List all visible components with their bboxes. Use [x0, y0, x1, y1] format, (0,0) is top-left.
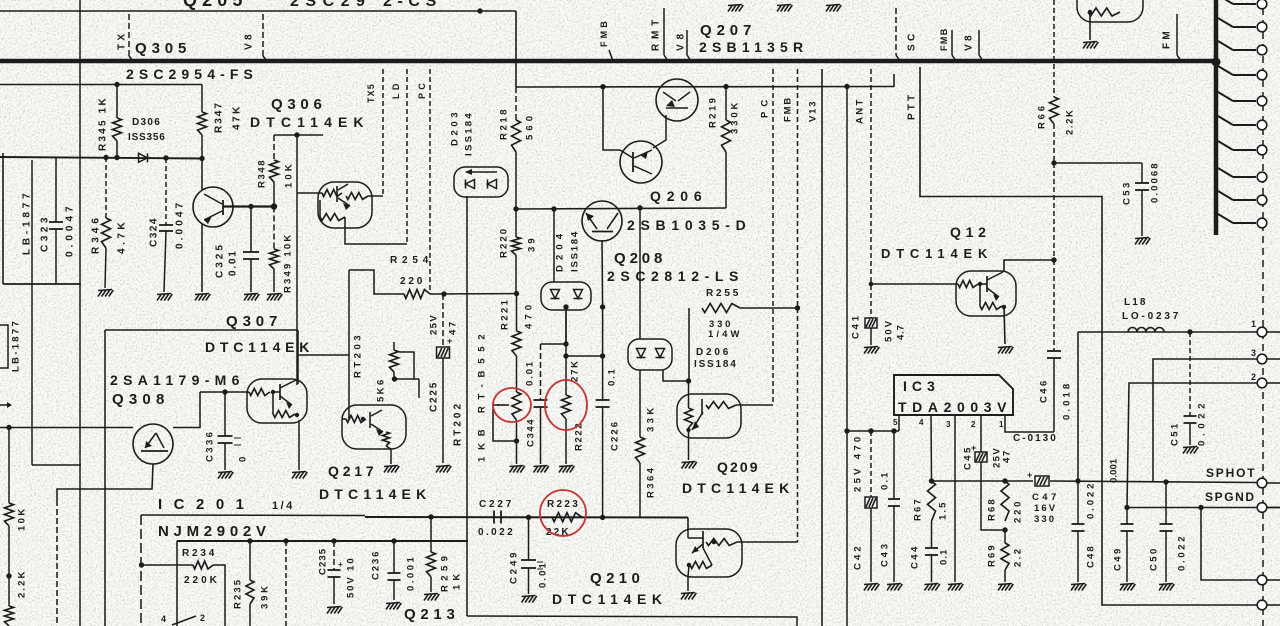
svg-text:4: 4 [161, 614, 166, 624]
svg-text:47: 47 [447, 319, 458, 335]
svg-text:2-CS: 2-CS [383, 0, 442, 10]
capacitor C225 [442, 294, 444, 347]
svg-text:0: 0 [237, 451, 248, 462]
svg-text:R364: R364 [645, 466, 656, 498]
ground R69 [998, 584, 1003, 591]
svg-text:4.7K: 4.7K [117, 219, 128, 254]
svg-text:2SC2812-LS: 2SC2812-LS [607, 268, 744, 284]
ground top 1 [728, 5, 733, 12]
svg-text:220: 220 [400, 276, 425, 287]
svg-text:Q210: Q210 [590, 570, 644, 587]
main supply bus [0, 59, 1216, 64]
wire top rail [0, 10, 516, 12]
wire C53 branch [1054, 162, 1142, 164]
svg-text:R255: R255 [706, 288, 741, 299]
svg-text:C43: C43 [879, 541, 890, 567]
ground C225 [436, 466, 441, 473]
svg-text:0.018: 0.018 [1061, 381, 1072, 420]
junction C48 top [1075, 478, 1080, 483]
svg-text:D206: D206 [696, 347, 731, 358]
ground R259 [424, 594, 429, 601]
wire LB-1877 left leg [2, 153, 4, 284]
wire left rail x80 [79, 0, 81, 626]
ground Q305 [195, 294, 200, 301]
svg-text:2SA1179-M6: 2SA1179-M6 [110, 372, 245, 388]
svg-text:0.01: 0.01 [228, 249, 239, 276]
junction ANT rail [844, 84, 849, 89]
ground C48 [1071, 584, 1076, 591]
junction C226 branch [563, 353, 568, 358]
svg-text:470: 470 [523, 301, 534, 329]
wire 5K6 out [395, 378, 420, 380]
svg-text:R221: R221 [499, 298, 510, 330]
svg-text:2: 2 [200, 613, 205, 623]
svg-text:DTC114EK: DTC114EK [319, 486, 431, 502]
svg-text:27K: 27K [569, 359, 580, 382]
svg-text:ISS184: ISS184 [694, 359, 738, 370]
svg-text:TDA2003V: TDA2003V [898, 399, 1012, 415]
capacitor C227 [493, 511, 495, 524]
junction R345 top [114, 82, 119, 87]
capacitor C324 [165, 158, 167, 225]
net tick FMB mid [609, 50, 613, 61]
svg-text:SPGND: SPGND [1205, 490, 1256, 504]
svg-text:R346: R346 [91, 214, 102, 254]
wire ic201 top border [141, 514, 365, 517]
wire Q305 collector [223, 205, 274, 207]
resistor R345 [116, 85, 118, 119]
svg-text:DTC114EK: DTC114EK [881, 246, 993, 261]
svg-text:C41: C41 [850, 313, 861, 339]
wire Q307 collector [297, 330, 299, 384]
resistor 5K6 [393, 342, 395, 350]
junction D204 bottom [563, 304, 568, 309]
svg-text:D306: D306 [132, 117, 161, 128]
svg-text:2SC29: 2SC29 [290, 0, 371, 10]
svg-text:C48: C48 [1085, 544, 1096, 568]
resistor R254 [404, 290, 430, 299]
resistor R221 [516, 294, 518, 331]
capacitor C44 [925, 547, 938, 549]
transistor Q12 [956, 271, 1016, 316]
svg-text:4: 4 [919, 418, 924, 427]
svg-text:R348: R348 [256, 159, 267, 188]
svg-text:LO-0237: LO-0237 [1122, 311, 1181, 322]
svg-text:0.022: 0.022 [1196, 399, 1207, 446]
transistor Q306 [318, 182, 372, 228]
svg-text:ISS356: ISS356 [128, 132, 166, 143]
ground R349 [267, 294, 272, 301]
junction SPGND right [1198, 505, 1203, 510]
ground C49 [1120, 584, 1125, 591]
diode D203 capsule [454, 167, 508, 197]
svg-text:25V: 25V [428, 314, 439, 335]
wire D204 bottom [565, 309, 567, 344]
connector bus bar [1214, 0, 1219, 235]
junction x286 [283, 538, 288, 543]
wire SPGND rail [1127, 507, 1280, 509]
wire PTT run [920, 67, 1258, 605]
wire bottom loop [467, 616, 797, 626]
svg-text:0.01: 0.01 [537, 561, 548, 588]
ground Q217 [384, 466, 389, 473]
svg-text:TX: TX [117, 31, 128, 50]
wire Q306 base rail [274, 134, 323, 136]
annotation red circle 2 [545, 380, 587, 430]
resistor R66 [1050, 97, 1059, 124]
transistor Q64 (clipped top) [1077, 0, 1143, 22]
wire Q12 collector [1004, 260, 1054, 272]
junction C236 top [391, 538, 396, 543]
ground Q307 [292, 472, 297, 479]
svg-text:FMB: FMB [599, 18, 609, 47]
svg-text:0.1: 0.1 [879, 470, 890, 490]
svg-text:0.1: 0.1 [938, 548, 949, 565]
wire Q307 emitter [298, 420, 300, 470]
svg-text:0.022: 0.022 [478, 527, 515, 538]
junction C225 top [441, 291, 446, 296]
net V13 [821, 69, 823, 626]
svg-text:330: 330 [1034, 514, 1056, 525]
capacitor C41 [865, 318, 877, 328]
ground C249 [522, 596, 527, 603]
svg-text:Q305: Q305 [135, 40, 191, 57]
wire IC3 pin5 [898, 415, 900, 431]
ground C53 [1135, 238, 1140, 245]
svg-text:V8: V8 [964, 32, 975, 51]
svg-text:2SB1135R: 2SB1135R [699, 39, 808, 55]
junction C47 left [1002, 478, 1007, 483]
ground C235 [327, 607, 332, 614]
wire Q206 base elbow [603, 87, 620, 150]
wire Q306 emitter [345, 228, 407, 244]
wire left rail x32 [31, 160, 33, 465]
wire R360 ground leg [516, 441, 518, 464]
wire Q306 collector [368, 195, 383, 197]
junction Q305 node [271, 203, 277, 209]
svg-text:C249: C249 [508, 550, 519, 584]
wire R222 net [565, 307, 567, 344]
svg-text:50V: 50V [883, 319, 894, 342]
ground C43 [887, 584, 892, 591]
svg-text:1: 1 [999, 420, 1004, 429]
svg-text:0.001: 0.001 [405, 555, 416, 591]
capacitor C226 [602, 356, 604, 400]
wire Q209 collector [736, 404, 773, 406]
wire L18 left [1078, 331, 1128, 333]
ground C41 [864, 347, 869, 354]
wire R254 right [430, 293, 517, 295]
junction R235 top [247, 538, 252, 543]
svg-text:C50: C50 [1148, 546, 1159, 571]
svg-text:0.0068: 0.0068 [1149, 161, 1160, 203]
svg-text:C49: C49 [1112, 546, 1123, 571]
svg-text:C44: C44 [909, 544, 920, 569]
svg-text:Q217: Q217 [328, 463, 377, 479]
wire sphot left [932, 480, 1034, 482]
transistor Q307 [247, 379, 307, 423]
svg-text:Q207: Q207 [700, 22, 756, 39]
svg-text:C47: C47 [1032, 492, 1060, 503]
svg-text:V13: V13 [807, 100, 818, 122]
bus terminal junction [1212, 58, 1221, 67]
wire Q307 base [200, 391, 249, 393]
wire D204 top [553, 209, 555, 282]
junction Q12 collector [1051, 257, 1056, 262]
svg-text:D203: D203 [449, 109, 460, 146]
ground R360 [510, 466, 515, 473]
svg-text:DTC114EK: DTC114EK [682, 480, 794, 496]
capacitor C344 [541, 343, 567, 345]
svg-text:3: 3 [1251, 348, 1256, 358]
ground R346 [98, 290, 103, 297]
resistor R218 [515, 87, 517, 120]
transistor Q305 [193, 187, 233, 227]
resistor R235 [249, 541, 251, 580]
wire L18 feed [1077, 332, 1079, 481]
svg-text:C227: C227 [479, 499, 514, 510]
inductor L18 [1128, 331, 1258, 333]
ground Q210 [681, 593, 686, 600]
ground C336 [218, 472, 223, 479]
wire to C226 [566, 355, 603, 357]
svg-text:FM: FM [1162, 28, 1173, 49]
wire y208 rail [516, 208, 726, 209]
svg-text:4.7: 4.7 [895, 324, 906, 340]
svg-text:0.0047: 0.0047 [65, 202, 76, 257]
ground C44 [925, 584, 930, 591]
wire Q308 collector [173, 392, 200, 428]
svg-text:R67: R67 [912, 497, 923, 521]
svg-text:R66: R66 [1036, 103, 1047, 129]
svg-text:R218: R218 [498, 107, 509, 140]
svg-text:D204: D204 [554, 229, 565, 272]
net stub V8 right [978, 30, 980, 55]
annotation red circle 3 [540, 490, 586, 536]
wire C46 to pin1 [1005, 416, 1054, 432]
svg-text:FMB: FMB [782, 96, 793, 122]
transistor Q208 [582, 201, 622, 241]
capacitor C325 [250, 207, 252, 253]
svg-text:3: 3 [946, 420, 951, 429]
svg-text:C226: C226 [609, 420, 620, 451]
transistor Q209 [677, 394, 741, 438]
component LB-1877 box [0, 325, 8, 368]
net PC [772, 69, 774, 405]
svg-text:220K: 220K [184, 575, 220, 586]
svg-text:DTC114EK: DTC114EK [552, 591, 668, 607]
svg-text:R223: R223 [547, 499, 580, 510]
component IC201 border left [140, 515, 142, 626]
svg-text:C42: C42 [852, 543, 863, 570]
svg-text:1K: 1K [451, 570, 462, 590]
svg-text:FMB: FMB [939, 27, 949, 51]
wire Q217 emitter [390, 449, 392, 464]
capacitor C235 [333, 541, 335, 570]
ground top 3 [826, 5, 831, 12]
svg-text:5: 5 [893, 418, 898, 427]
wire D206 out [663, 370, 689, 381]
junction R345 bottom [114, 155, 119, 160]
wire Q210 emitter [687, 577, 689, 591]
svg-text:2SC2954-FS: 2SC2954-FS [126, 66, 258, 82]
wire Q12 base [871, 283, 958, 285]
connector pins lower [1257, 327, 1267, 337]
junction R218 bottom [513, 206, 518, 211]
junction C235 top [331, 538, 336, 543]
junction R219 top [723, 84, 728, 89]
svg-text:RT202: RT202 [453, 401, 464, 446]
junction C51 top [1187, 329, 1192, 334]
capacitor C336 [224, 392, 226, 436]
svg-text:2: 2 [971, 420, 976, 429]
capacitor C50 [1165, 482, 1167, 524]
wire top rail corner down [515, 11, 517, 87]
junction R255 FMB [795, 305, 800, 310]
net stub RMT [663, 8, 665, 55]
capacitor C46 [1053, 163, 1055, 260]
resistor R219 [725, 87, 727, 120]
svg-text:C344: C344 [525, 418, 536, 447]
resistor R222 [565, 344, 567, 395]
net LD [406, 69, 408, 244]
resistor R349 [273, 207, 275, 250]
diode D206 capsule [628, 339, 672, 370]
svg-text:5K6: 5K6 [375, 377, 386, 402]
ground top 2 [777, 5, 782, 12]
svg-text:LB-1877: LB-1877 [10, 319, 21, 372]
junction SPGND left [1124, 505, 1129, 510]
svg-text:2SB1035-D: 2SB1035-D [627, 217, 751, 233]
wire Q308 emitter [57, 464, 153, 500]
wire x603 to C226 [602, 307, 604, 356]
connector pin chain dash [1262, 8, 1264, 626]
capacitor C51 [1189, 332, 1191, 416]
svg-text:39: 39 [526, 235, 537, 252]
svg-text:Q213: Q213 [404, 606, 460, 623]
wire y86 rail [516, 86, 894, 89]
wire D206 feed [639, 208, 641, 339]
resistor R255 [688, 308, 690, 381]
net stub SC [895, 8, 897, 55]
svg-text:Q205: Q205 [183, 0, 247, 10]
net R66 [1053, 0, 1055, 97]
junction C226 bottom [600, 515, 605, 520]
net stub V8 q207 [686, 30, 688, 55]
resistor R234 [142, 564, 194, 566]
svg-text:+: + [338, 560, 343, 569]
wire Q208 collector [601, 240, 604, 307]
svg-text:330K: 330K [729, 100, 740, 134]
wire IC3 pin3 [954, 415, 956, 582]
wire Q210 base [687, 518, 689, 532]
svg-text:LD: LD [391, 80, 401, 99]
svg-text:R234: R234 [182, 548, 217, 559]
svg-text:RT203: RT203 [352, 332, 363, 378]
svg-text:NJM2902V: NJM2902V [158, 523, 271, 540]
svg-text:0.001: 0.001 [1108, 458, 1119, 483]
wire Q210 collector [742, 541, 798, 543]
svg-text:ISS184: ISS184 [569, 230, 580, 272]
junction Q306 base rail [294, 132, 299, 137]
svg-text:1.5: 1.5 [937, 500, 948, 520]
diode D306 [139, 153, 148, 162]
wire 5K6 bracket [399, 352, 414, 379]
svg-text:SPHOT: SPHOT [1206, 466, 1256, 480]
capacitor C249 [528, 517, 530, 560]
wire supply y431 [847, 430, 899, 432]
wire main line y541 [177, 540, 468, 542]
svg-text:R349 10K: R349 10K [282, 233, 293, 293]
svg-text:1: 1 [1251, 319, 1256, 329]
transistor Q217 [342, 405, 406, 449]
svg-text:0.0047: 0.0047 [175, 200, 186, 249]
svg-text:33K: 33K [645, 404, 656, 432]
svg-text:SC: SC [907, 31, 918, 52]
junction Q12 base [869, 282, 874, 287]
svg-text:Q306: Q306 [271, 96, 327, 113]
wire Q305 emitter [201, 224, 203, 292]
wire Q209 emitter [688, 438, 690, 460]
svg-text:R259: R259 [439, 552, 450, 592]
connector pins upper [1218, 0, 1233, 4]
resistor R67 [928, 481, 936, 521]
wire x32 to x80 [32, 464, 81, 466]
wire Q307 branch [298, 354, 349, 356]
junction R68 bottom [1002, 527, 1007, 532]
svg-text:R235: R235 [232, 578, 243, 609]
ground C51 [1183, 447, 1188, 454]
svg-text:R68: R68 [986, 497, 997, 521]
net stub TX [128, 14, 130, 56]
capacitor C236 [393, 541, 395, 573]
junction C42 top [868, 428, 873, 433]
junction C249 top [526, 515, 531, 520]
svg-text:R345 1K: R345 1K [98, 96, 109, 151]
net line x297 [296, 135, 298, 385]
resistor R68 [1001, 481, 1009, 521]
ground R222 [559, 466, 564, 473]
svg-text:Q12: Q12 [950, 224, 991, 240]
wire y330 rail [105, 329, 298, 331]
svg-text:25V 470: 25V 470 [852, 434, 863, 493]
wire R254 branch [349, 270, 404, 294]
resistor R364 [639, 370, 641, 437]
junction R259 top [428, 514, 433, 519]
svg-text:LB-1877: LB-1877 [22, 189, 33, 255]
net TX5 [382, 69, 384, 196]
svg-text:ANT: ANT [854, 97, 865, 124]
junction y86 x603 [600, 84, 605, 89]
wire Q308 rail [0, 427, 133, 429]
junction C324 top [163, 155, 168, 160]
svg-text:C325: C325 [215, 242, 226, 278]
svg-text:R219: R219 [707, 96, 718, 128]
net FMB [797, 69, 799, 308]
junction C226 top [600, 353, 605, 358]
junction pin4 out [929, 478, 934, 483]
wire sphot right [1050, 481, 1258, 483]
junction Q208 collector [600, 304, 605, 309]
transistor Q210 [676, 529, 742, 577]
net ANT rail [846, 87, 848, 626]
svg-text:R220: R220 [498, 227, 509, 258]
transistor Q207b [656, 79, 698, 121]
wire conn pin3 run [1153, 359, 1258, 482]
svg-text:PC: PC [759, 95, 770, 118]
wire PTT hook [893, 74, 895, 87]
net ANT dash [870, 69, 872, 318]
